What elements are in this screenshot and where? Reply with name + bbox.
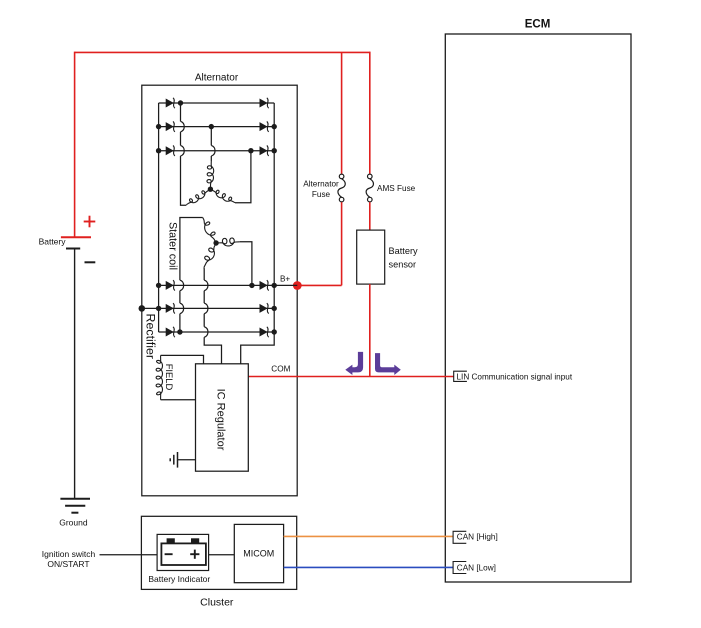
svg-text:LIN Communication signal input: LIN Communication signal input xyxy=(457,372,573,381)
svg-text:Cluster: Cluster xyxy=(200,597,234,609)
svg-text:B+: B+ xyxy=(280,274,290,283)
svg-text:Ignition switch: Ignition switch xyxy=(42,549,96,559)
svg-text:Alternator: Alternator xyxy=(195,73,239,84)
svg-text:IC Regulator: IC Regulator xyxy=(214,389,226,451)
svg-text:ECM: ECM xyxy=(525,19,551,31)
svg-text:Ground: Ground xyxy=(59,517,88,527)
svg-text:MICOM: MICOM xyxy=(243,548,274,558)
svg-text:sensor: sensor xyxy=(389,259,417,269)
svg-text:FIELD: FIELD xyxy=(164,364,175,391)
svg-text:Stater coil: Stater coil xyxy=(167,222,179,270)
svg-text:Battery: Battery xyxy=(389,246,419,256)
svg-text:AMS Fuse: AMS Fuse xyxy=(377,184,416,193)
svg-text:Fuse: Fuse xyxy=(312,190,331,199)
svg-text:Alternator: Alternator xyxy=(303,179,339,188)
svg-text:CAN [High]: CAN [High] xyxy=(457,533,498,542)
svg-text:Battery: Battery xyxy=(39,236,67,246)
svg-text:Rectifier: Rectifier xyxy=(143,314,157,359)
svg-text:ON/START: ON/START xyxy=(47,559,89,569)
svg-text:Battery Indicator: Battery Indicator xyxy=(148,574,210,584)
svg-text:COM: COM xyxy=(271,364,290,373)
svg-text:CAN [Low]: CAN [Low] xyxy=(457,564,496,573)
